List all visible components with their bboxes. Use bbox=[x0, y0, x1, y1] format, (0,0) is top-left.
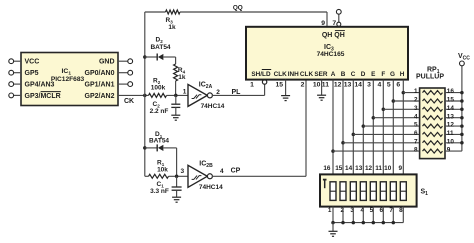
svg-text:4: 4 bbox=[220, 168, 224, 175]
svg-text:CLK: CLK bbox=[274, 71, 288, 78]
svg-text:F: F bbox=[381, 71, 385, 78]
IC2A output bubble bbox=[207, 93, 212, 98]
ground below C2 bbox=[171, 114, 180, 116]
IC1 right pin stubs bbox=[118, 60, 128, 62]
svg-text:10: 10 bbox=[447, 138, 455, 145]
IC2B hysteresis symbol bbox=[192, 176, 202, 180]
svg-text:14: 14 bbox=[354, 82, 362, 89]
svg-text:6: 6 bbox=[396, 82, 400, 89]
svg-text:5: 5 bbox=[414, 122, 418, 129]
svg-text:CK: CK bbox=[124, 98, 134, 105]
svg-text:12: 12 bbox=[447, 122, 455, 129]
svg-text:GP2/AN2: GP2/AN2 bbox=[85, 93, 115, 100]
svg-text:1: 1 bbox=[414, 88, 418, 95]
node IC2B input junction bbox=[175, 175, 179, 179]
IC1 left pin stubs bbox=[14, 60, 21, 62]
wire D1 anode down to R1 output bbox=[163, 147, 176, 149]
svg-text:H: H bbox=[400, 71, 405, 78]
svg-text:E: E bbox=[371, 71, 376, 78]
svg-text:QQ: QQ bbox=[233, 5, 243, 12]
svg-text:12: 12 bbox=[365, 165, 373, 172]
svg-text:BAT54: BAT54 bbox=[149, 137, 169, 144]
svg-text:100k: 100k bbox=[151, 85, 166, 92]
wires IC3 outputs A-H down to switch S1 bbox=[332, 80, 334, 175]
IC3 pin10 SER ground wire bbox=[321, 80, 323, 95]
wire CP from IC2B to IC3 CLK bbox=[212, 175, 306, 177]
svg-text:13: 13 bbox=[447, 113, 455, 120]
op-amp IC2A 74HC14 schmitt inverter triangle bbox=[188, 84, 207, 106]
S1 bottom pin wires bbox=[332, 207, 334, 223]
svg-text:8: 8 bbox=[399, 207, 403, 214]
svg-text:5: 5 bbox=[387, 82, 391, 89]
svg-text:GP5: GP5 bbox=[25, 70, 39, 77]
svg-text:1: 1 bbox=[250, 82, 254, 89]
IC3 pin15 CLKINH ground wire bbox=[285, 80, 287, 96]
IC3 pin7 QH-bar bubble and terminal bbox=[338, 14, 340, 22]
wire PL from IC2A to IC3 SH/LD bbox=[212, 94, 265, 96]
svg-text:4: 4 bbox=[361, 207, 365, 214]
svg-text:PULLUP: PULLUP bbox=[416, 73, 444, 80]
VCC terminal bbox=[460, 61, 465, 66]
diode D2 BAT54 bbox=[156, 54, 158, 61]
svg-text:11: 11 bbox=[447, 130, 454, 137]
svg-text:PL: PL bbox=[232, 89, 242, 96]
wire left rail vertical bbox=[144, 12, 146, 176]
svg-text:15: 15 bbox=[335, 165, 343, 172]
svg-text:SH/LD: SH/LD bbox=[251, 71, 271, 78]
junction dots on ground bus bbox=[331, 221, 335, 225]
svg-text:9: 9 bbox=[447, 147, 451, 154]
svg-text:2: 2 bbox=[414, 97, 418, 104]
svg-text:1k: 1k bbox=[168, 24, 176, 31]
RP1 left row wires bbox=[403, 92, 419, 94]
IC IC3 74HC165 body bbox=[246, 27, 408, 80]
ground at IC3 pin10 bbox=[317, 94, 326, 96]
resistor R3 zigzag bbox=[166, 10, 181, 14]
wire bus to ground bbox=[332, 223, 334, 231]
svg-text:7: 7 bbox=[414, 138, 418, 145]
svg-text:A: A bbox=[331, 71, 336, 78]
svg-text:16: 16 bbox=[447, 88, 455, 95]
svg-text:9: 9 bbox=[399, 165, 403, 172]
svg-text:13: 13 bbox=[344, 82, 352, 89]
svg-text:PIC12F683: PIC12F683 bbox=[51, 76, 85, 83]
svg-text:8: 8 bbox=[414, 147, 418, 154]
svg-text:G: G bbox=[390, 71, 395, 78]
wire S1 ground bus bbox=[333, 222, 403, 224]
IC3 pin1 bubble bbox=[262, 80, 266, 84]
capacitor C2 bbox=[175, 95, 177, 103]
RP1 right row wires bbox=[445, 92, 462, 94]
RP1 internal resistors bbox=[423, 91, 443, 95]
svg-text:GP0/AN0: GP0/AN0 bbox=[85, 70, 115, 77]
svg-text:11: 11 bbox=[322, 82, 329, 89]
svg-text:11: 11 bbox=[375, 165, 382, 172]
svg-text:14: 14 bbox=[345, 165, 353, 172]
svg-text:74HC14: 74HC14 bbox=[199, 184, 223, 191]
svg-text:1: 1 bbox=[183, 89, 187, 96]
svg-text:2.2 nF: 2.2 nF bbox=[150, 108, 169, 115]
svg-text:16: 16 bbox=[323, 165, 331, 172]
resistor R2 zigzag bbox=[149, 93, 167, 97]
resistor pack RP1 body bbox=[420, 88, 445, 159]
svg-text:4: 4 bbox=[378, 82, 382, 89]
svg-text:15: 15 bbox=[447, 97, 455, 104]
svg-text:1: 1 bbox=[328, 207, 332, 214]
svg-text:GP3/MCLR: GP3/MCLR bbox=[25, 93, 61, 100]
node IC2A input junction bbox=[174, 94, 178, 98]
wire R4 bottom to CK junction bbox=[175, 81, 177, 95]
wire rail to D2 bbox=[145, 56, 157, 58]
wire CK from IC1 GP2/AN2 to R2 bbox=[118, 94, 149, 96]
svg-text:6: 6 bbox=[414, 130, 418, 137]
wire VCC rail bbox=[461, 66, 463, 151]
wire top from rail to R3 bbox=[145, 11, 166, 13]
svg-text:D: D bbox=[361, 71, 366, 78]
svg-text:3: 3 bbox=[367, 82, 371, 89]
op-amp IC2B 74HC14 schmitt inverter triangle bbox=[188, 165, 207, 187]
node D1 anode on rail bbox=[143, 146, 147, 150]
wire rail to D1 bbox=[145, 147, 157, 149]
IC IC1 PIC12F683 body bbox=[21, 53, 118, 106]
ground at S1 bus bbox=[329, 230, 338, 232]
S1 switch elements bbox=[330, 182, 336, 201]
svg-text:3: 3 bbox=[180, 168, 184, 175]
svg-text:15: 15 bbox=[276, 82, 284, 89]
svg-text:BAT54: BAT54 bbox=[150, 44, 170, 51]
svg-text:QH QH: QH QH bbox=[322, 32, 345, 39]
ground at IC3 pin15 bbox=[281, 95, 290, 97]
svg-text:3.3 nF: 3.3 nF bbox=[150, 188, 169, 195]
svg-text:10: 10 bbox=[384, 165, 392, 172]
wire D2 anode to R4 top bbox=[163, 56, 175, 58]
svg-text:13: 13 bbox=[355, 165, 363, 172]
capacitor C1 bbox=[176, 176, 178, 186]
svg-text:C: C bbox=[351, 71, 356, 78]
IC1 right pin terminals bbox=[128, 59, 133, 64]
svg-text:CLK: CLK bbox=[300, 71, 314, 78]
svg-text:4: 4 bbox=[414, 113, 418, 120]
svg-text:GND: GND bbox=[99, 59, 115, 66]
svg-text:1k: 1k bbox=[178, 74, 186, 81]
svg-text:VCC: VCC bbox=[25, 59, 40, 66]
svg-text:SER: SER bbox=[314, 71, 328, 78]
svg-text:9: 9 bbox=[321, 20, 325, 27]
node CK junction at left rail bbox=[143, 94, 147, 98]
svg-text:GP1/AN1: GP1/AN1 bbox=[85, 82, 115, 89]
S1 position mark bbox=[323, 179, 327, 181]
IC2B output bubble bbox=[207, 174, 212, 179]
IC1 left pin terminals bbox=[9, 59, 14, 64]
wire rail corner to R1 bbox=[145, 175, 149, 177]
svg-text:10: 10 bbox=[313, 82, 321, 89]
svg-text:B: B bbox=[341, 71, 346, 78]
svg-text:10k: 10k bbox=[157, 166, 168, 173]
svg-text:14: 14 bbox=[447, 105, 455, 112]
svg-text:7: 7 bbox=[332, 20, 336, 27]
junction dots RP1 to VCC rail bbox=[460, 91, 464, 95]
wire R1 to IC2B input bbox=[169, 175, 189, 177]
ground below C1 bbox=[172, 196, 181, 198]
svg-text:74HC165: 74HC165 bbox=[317, 51, 345, 58]
svg-text:3: 3 bbox=[414, 105, 418, 112]
IC2A hysteresis symbol bbox=[192, 95, 202, 99]
svg-text:INH: INH bbox=[288, 71, 299, 78]
switch S1 body bbox=[320, 174, 417, 206]
svg-text:2: 2 bbox=[301, 82, 305, 89]
node D2 anode on rail bbox=[143, 55, 147, 59]
junction dots A-H to RP1 rows bbox=[402, 91, 406, 95]
resistor R1 zigzag bbox=[149, 174, 169, 178]
svg-text:74HC14: 74HC14 bbox=[201, 103, 225, 110]
resistor R4 zigzag bbox=[174, 64, 178, 81]
svg-text:12: 12 bbox=[334, 82, 342, 89]
wire QQ from R3 to IC3 pin 9 bbox=[180, 11, 327, 13]
diode D1 BAT54 bbox=[156, 144, 158, 151]
wire R2 to IC2A input bbox=[167, 94, 189, 96]
svg-text:CP: CP bbox=[231, 167, 241, 174]
